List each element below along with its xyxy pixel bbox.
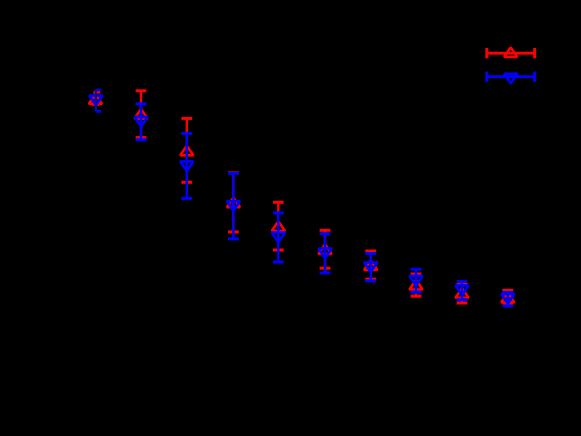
red series point 7 marker (hollow up-triangle)	[364, 260, 377, 270]
legend blue marker (hollow down-triangle)	[504, 74, 517, 84]
red series point 2 error bar top cap	[136, 89, 147, 92]
blue series point 4 error bar bottom cap	[228, 237, 239, 240]
red series point 1 error bar bottom cap	[91, 103, 99, 106]
blue series point 2 marker (hollow down-triangle)	[134, 117, 147, 127]
blue series point 7 error bar line	[370, 254, 372, 281]
red series point 4 error bar bottom cap	[228, 231, 239, 234]
blue series point 2 error bar line	[140, 104, 142, 140]
blue series point 3 marker (hollow down-triangle)	[180, 161, 193, 171]
blue series point 9 marker (hollow down-triangle)	[455, 285, 468, 295]
red series point 4 marker (hollow up-triangle)	[227, 198, 240, 208]
blue series point 8 error bar line	[415, 269, 417, 292]
blue series point 10 error bar bottom cap	[502, 304, 513, 307]
red series point 10 marker (hollow up-triangle)	[501, 293, 514, 303]
legend blue entry: horizontal error bar sample with down-triangle	[487, 75, 535, 78]
red series point 8 error bar bottom cap	[411, 295, 422, 298]
red series point 8 marker (hollow up-triangle)	[409, 280, 422, 290]
red series point 10 error bar line	[507, 290, 509, 304]
red series point 6 marker (hollow up-triangle)	[318, 244, 331, 254]
blue series point 3 error bar bottom cap	[181, 197, 192, 200]
blue series point 7 error bar bottom cap	[365, 279, 376, 282]
blue series point 4 error bar line	[232, 173, 234, 239]
red series point 8 error bar line	[415, 274, 417, 296]
red series point 9 error bar top cap	[457, 283, 468, 286]
blue series point 5 error bar bottom cap	[273, 261, 284, 264]
blue series point 3 error bar line	[186, 133, 188, 198]
red series point 5 marker (hollow up-triangle)	[272, 221, 285, 231]
blue series point 7 marker (hollow down-triangle)	[364, 262, 377, 272]
red series point 1 error bar line	[94, 92, 96, 104]
blue series point 10 error bar line	[507, 293, 509, 306]
red series point 2 marker (hollow up-triangle)	[134, 109, 147, 119]
red series point 8 error bar top cap	[411, 273, 422, 276]
red series point 6 error bar line	[324, 230, 326, 268]
red series point 2 error bar bottom cap	[136, 136, 147, 139]
red series point 6 error bar top cap	[320, 229, 331, 232]
red series point 3 error bar top cap	[181, 117, 192, 120]
blue series point 6 error bar top cap	[320, 232, 331, 235]
blue series point 1 error bar line	[95, 90, 97, 112]
blue series point 9 error bar top cap	[457, 280, 468, 283]
red series point 3 error bar line	[186, 118, 188, 182]
red series point 9 error bar line	[461, 284, 463, 303]
red series point 2 error bar line	[140, 91, 142, 138]
blue series point 5 marker (hollow down-triangle)	[272, 233, 285, 243]
red series point 9 marker (hollow up-triangle)	[455, 288, 468, 298]
red series point 3 marker (hollow up-triangle)	[180, 146, 193, 156]
red series point 6 error bar bottom cap	[320, 267, 331, 270]
red series point 4 error bar line	[232, 173, 234, 232]
red series point 1 marker (hollow up-triangle)	[89, 94, 102, 104]
blue series point 2 error bar bottom cap	[136, 138, 147, 141]
blue series point 2 error bar top cap	[136, 102, 147, 105]
blue series point 9 error bar line	[461, 281, 463, 299]
blue series point 8 marker (hollow down-triangle)	[409, 276, 422, 286]
blue series point 4 marker (hollow down-triangle)	[227, 201, 240, 211]
red series point 10 error bar bottom cap	[502, 303, 513, 306]
blue series point 3 error bar top cap	[181, 132, 192, 135]
red series point 9 error bar bottom cap	[457, 302, 468, 305]
red series point 5 error bar line	[277, 202, 279, 250]
blue series point 7 error bar top cap	[365, 252, 376, 255]
red series point 5 error bar top cap	[273, 201, 284, 204]
blue series point 10 marker (hollow down-triangle)	[501, 294, 514, 304]
blue series point 9 error bar bottom cap	[457, 298, 468, 301]
red series point 7 error bar top cap	[365, 250, 376, 253]
red series point 10 error bar top cap	[502, 289, 513, 292]
red series point 4 error bar top cap	[228, 171, 239, 174]
blue series point 4 error bar top cap	[228, 172, 239, 175]
blue series point 1 marker (hollow down-triangle)	[89, 96, 102, 106]
legend red marker (hollow up-triangle)	[504, 47, 517, 57]
blue series point 1 error bar top cap (right half)	[96, 89, 101, 92]
blue series point 6 error bar bottom cap	[320, 271, 331, 274]
legend red entry: horizontal error bar sample with up-triangle	[487, 52, 535, 55]
red series point 3 error bar bottom cap	[181, 181, 192, 184]
red series point 7 error bar bottom cap	[365, 278, 376, 281]
blue series point 1 error bar bottom cap (right half)	[96, 110, 101, 113]
blue series point 5 error bar top cap	[273, 211, 284, 214]
blue series point 6 marker (hollow down-triangle)	[318, 249, 331, 259]
red series point 7 error bar line	[370, 251, 372, 279]
red series point 5 error bar bottom cap	[273, 249, 284, 252]
blue series point 8 error bar bottom cap	[411, 291, 422, 294]
blue series point 5 error bar line	[277, 213, 279, 262]
blue series point 6 error bar line	[324, 234, 326, 273]
dark overlap line at point 1	[95, 89, 97, 110]
blue series point 8 error bar top cap	[411, 268, 422, 271]
red series point 1 error bar top cap	[93, 91, 100, 94]
blue series point 10 error bar top cap	[502, 291, 513, 294]
